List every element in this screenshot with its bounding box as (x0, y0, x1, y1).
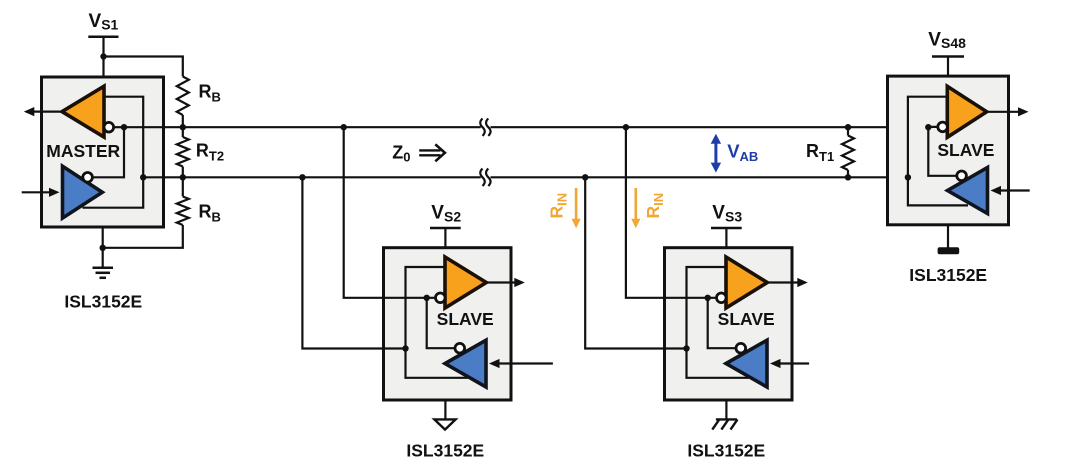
RIN current arrow (right) (631, 188, 640, 228)
junction U1 ground node (100, 245, 106, 251)
wire VS3 to U3 (725, 228, 727, 248)
MASTER label (46, 141, 120, 161)
wire U1 A-net down to driver bubble (92, 127, 124, 177)
driver triangle U1 (blue, pointing right) (63, 166, 103, 218)
driver output wire + arrow U4 (987, 107, 1029, 116)
VS1 supply bar (88, 36, 118, 39)
transceiver U2 SLAVE block body (384, 248, 512, 400)
junction bus B / U3 tap (582, 174, 588, 180)
receiver triangle U3 (blue, pointing left) (726, 340, 767, 387)
receiver triangle U4 (blue, pointing left) (948, 168, 988, 214)
wire U1 A-net: bubble to junction (113, 126, 124, 128)
wire VS2 to U2 (444, 228, 446, 248)
resistor RB (pull-down) body (177, 177, 189, 232)
bus B break symbol (480, 169, 490, 186)
junction bus B / RT1 (845, 174, 851, 180)
receiver input wire + arrow U3 (770, 359, 809, 368)
wire bus line B (left of break) (143, 176, 481, 178)
wire bus B tap to U3 (585, 177, 686, 348)
RIN current arrow (left) (572, 188, 581, 228)
junction bus B / RT2 / RB (180, 174, 186, 180)
wire U3 B-net inside block (687, 267, 750, 378)
wire bus line A (left of break) (124, 126, 481, 128)
VAB label (727, 141, 758, 164)
svg-text:RB: RB (199, 82, 221, 105)
Z0 characteristic impedance label (392, 143, 410, 165)
resistor RT1 body (842, 127, 854, 177)
VS1 label (89, 11, 119, 33)
wire U4 B-net inside block (908, 97, 968, 206)
svg-text:ISL3152E: ISL3152E (64, 291, 142, 311)
wire VS48 to U4 (947, 57, 949, 77)
svg-text:MASTER: MASTER (46, 141, 120, 161)
junction U3 A-net (705, 295, 711, 301)
wire bus A tap to U3 (626, 127, 708, 298)
driver inversion bubble U1 (83, 173, 93, 183)
driver output wire + arrow U2 (486, 278, 525, 287)
receiver triangle U2 (blue, pointing left) (445, 340, 486, 387)
svg-text:VAB: VAB (727, 141, 758, 164)
SLAVE label U3 (718, 309, 775, 329)
driver triangle U4 (orange, output to right) (947, 86, 986, 137)
wire ground node to resistor chain bottom (103, 232, 183, 248)
ISL3152E label U1 (64, 291, 142, 311)
bubble on A pin U4 (938, 122, 948, 132)
resistor RT2 label (196, 141, 224, 164)
ground symbol (solid bar) U4 (938, 247, 960, 254)
wire bus A tap to U2 (344, 127, 427, 298)
wire U2 A-net inside block (427, 298, 455, 348)
transceiver U3 SLAVE block body (665, 248, 793, 400)
ground symbol (earth) U1 (93, 268, 114, 278)
wire VS1 node to bias resistors (104, 57, 183, 77)
transceiver U4 SLAVE block body (888, 76, 1009, 225)
driver triangle U2 (orange, output to right) (445, 257, 486, 308)
bus A break symbol (480, 119, 490, 136)
junction bus A / U2 tap (341, 124, 347, 130)
svg-text:RIN: RIN (643, 193, 666, 219)
VS48 supply bar (932, 55, 964, 58)
ground symbol (open triangle) U2 (434, 419, 455, 429)
svg-text:RT1: RT1 (806, 141, 834, 164)
wire U2 ground (444, 400, 446, 419)
resistor RT2 body (177, 127, 189, 177)
junction bus A / U3 tap (623, 124, 629, 130)
bubble on receiver U4 (957, 171, 967, 181)
wire bus line A (right of break) (491, 126, 929, 128)
junction bus A / RT1 (845, 124, 851, 130)
RIN label (left) (546, 193, 569, 219)
svg-text:SLAVE: SLAVE (718, 309, 775, 329)
bubble on A pin U3 (717, 293, 727, 303)
svg-text:ISL3152E: ISL3152E (406, 441, 484, 461)
resistor RB (pull-up) label (199, 82, 221, 105)
bubble on receiver U2 (455, 343, 465, 353)
driver input wire + arrow (DI of U1) (22, 188, 60, 197)
receiver output bubble U1 (104, 122, 114, 132)
junction bus A / RB / RT2 (180, 124, 186, 130)
ISL3152E label U4 (909, 265, 987, 285)
receiver triangle U1 (orange, output to left) (62, 86, 104, 137)
wire U2 B-net inside block (406, 267, 469, 378)
svg-text:ISL3152E: ISL3152E (909, 265, 987, 285)
svg-text:VS2: VS2 (431, 203, 461, 225)
VS2 label (431, 203, 461, 225)
svg-text:ISL3152E: ISL3152E (687, 441, 765, 461)
VS3 supply bar (711, 227, 742, 230)
receiver input wire + arrow U4 (991, 186, 1030, 195)
VS48 label (928, 29, 966, 51)
VS2 supply bar (430, 227, 461, 230)
bubble on receiver U3 (736, 343, 746, 353)
junction U1 A-net (121, 124, 127, 130)
resistor RB (pull-down) label (199, 201, 221, 224)
wire bus B tap to U2 (302, 177, 405, 348)
receiver input wire + arrow U2 (489, 359, 553, 368)
wire U4 A-net inside block (928, 127, 956, 176)
wire bus line B (right of break) (491, 176, 908, 178)
resistor RT1 label (806, 141, 834, 164)
svg-text:SLAVE: SLAVE (937, 140, 994, 160)
transceiver U1 MASTER block body (42, 77, 164, 227)
junction U4 A-net (925, 124, 931, 130)
Z0 direction double-arrow (419, 144, 445, 161)
junction U2 A-net (424, 295, 430, 301)
SLAVE label U2 (437, 309, 494, 329)
junction U3 B-net (683, 345, 689, 351)
junction U4 B-net (905, 174, 911, 180)
ISL3152E label U2 (406, 441, 484, 461)
svg-text:VS3: VS3 (712, 203, 742, 225)
svg-text:VS48: VS48 (928, 29, 966, 51)
wire U1 B-net: receiver top to bus (83, 97, 144, 208)
VS3 label (712, 203, 742, 225)
receiver output wire + arrow (RO of U1) (24, 107, 62, 116)
bubble on A pin U2 (436, 293, 446, 303)
RIN label (right) (643, 193, 666, 219)
svg-text:Z0: Z0 (392, 143, 410, 165)
VAB differential voltage arrow (711, 134, 721, 173)
svg-text:RIN: RIN (546, 193, 569, 219)
wire U3 ground (725, 400, 727, 419)
junction bus B / U2 tap (299, 174, 305, 180)
driver triangle U3 (orange, output to right) (726, 257, 767, 308)
junction VS1 node (100, 53, 106, 59)
driver output wire + arrow U3 (767, 278, 808, 287)
wire U1 ground (102, 227, 104, 268)
svg-text:RB: RB (199, 201, 221, 224)
junction U1 B-net (140, 174, 146, 180)
SLAVE label U4 (937, 140, 994, 160)
svg-text:RT2: RT2 (196, 141, 224, 164)
junction U2 B-net (402, 345, 408, 351)
wire U3 A-net inside block (708, 298, 736, 348)
wire U4 ground (947, 225, 949, 248)
ground symbol (chassis) U3 (712, 419, 737, 429)
svg-text:SLAVE: SLAVE (437, 309, 494, 329)
ISL3152E label U3 (687, 441, 765, 461)
svg-text:VS1: VS1 (89, 11, 119, 33)
wire VS1 to U1 (102, 37, 104, 77)
resistor RB (pull-up) body (177, 77, 189, 128)
